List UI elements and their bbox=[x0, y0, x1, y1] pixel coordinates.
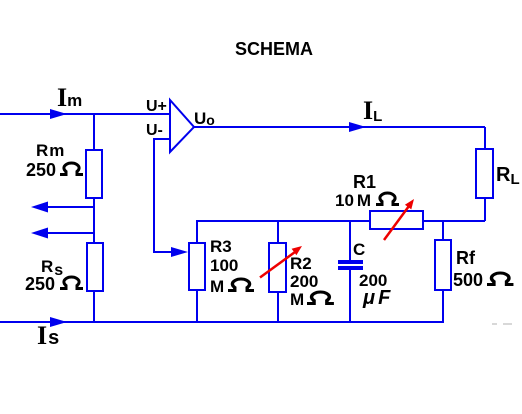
wire right vertical into RL bbox=[484, 127, 486, 149]
wire C bottom bbox=[349, 269, 351, 322]
resistor Rs bbox=[87, 243, 103, 291]
resistor R1 (variable, horizontal) bbox=[370, 211, 423, 229]
svg-text:Rm: Rm bbox=[36, 141, 65, 160]
svg-text:R2: R2 bbox=[290, 254, 312, 273]
resistor Rm bbox=[86, 150, 102, 198]
resistor Rf bbox=[435, 240, 451, 290]
svg-text:Rf: Rf bbox=[456, 248, 476, 268]
resistor R2 (variable) bbox=[269, 243, 286, 292]
svg-text:250: 250 bbox=[26, 160, 56, 180]
red trimmer arrow through R2 bbox=[260, 252, 295, 278]
svg-text:100: 100 bbox=[210, 256, 238, 275]
op-amp U1 bbox=[170, 100, 194, 152]
arrow Im on top wire bbox=[50, 109, 67, 119]
svg-text:500: 500 bbox=[453, 270, 483, 290]
wire Rf top stub bbox=[442, 221, 444, 240]
wire left arrow 2 bbox=[38, 232, 94, 234]
svg-text:Uo: Uo bbox=[194, 109, 215, 128]
capacitor C plates bbox=[338, 260, 363, 264]
faint artifact dots bottom right bbox=[492, 323, 497, 325]
wire C top stub bbox=[349, 221, 351, 261]
arrow Is on bottom wire bbox=[50, 317, 67, 327]
svg-text:C: C bbox=[353, 240, 365, 259]
svg-text:200: 200 bbox=[290, 272, 318, 291]
node A junction vertical wire through Rm and Rs bbox=[93, 114, 95, 322]
wire top-left input to op-amp bbox=[0, 113, 170, 115]
wire middle node bus bbox=[197, 221, 485, 243]
wire U- feedback: from op-amp inverting input down and right to R3 bbox=[154, 139, 178, 252]
svg-text:R3: R3 bbox=[210, 237, 232, 256]
wire R2 top stub bbox=[277, 221, 279, 243]
resistor R3 bbox=[189, 243, 205, 290]
svg-text:SCHEMA: SCHEMA bbox=[235, 39, 313, 59]
wire RL bottom to node bus bbox=[484, 198, 486, 221]
resistor RL bbox=[476, 149, 493, 198]
svg-text:M: M bbox=[290, 290, 304, 309]
svg-text:U+: U+ bbox=[146, 98, 167, 115]
wire bottom bus bbox=[0, 321, 444, 323]
svg-text:U-: U- bbox=[146, 122, 163, 139]
wire left arrow 1 bbox=[38, 206, 94, 208]
svg-text:R1: R1 bbox=[353, 172, 376, 192]
arrow IL on output wire bbox=[349, 122, 366, 132]
wire R3 bottom bbox=[196, 290, 198, 322]
red trimmer arrow through R1 bbox=[384, 206, 409, 240]
wire R2 bottom bbox=[277, 292, 279, 322]
wire Rf bottom bbox=[442, 290, 444, 322]
svg-text:M: M bbox=[210, 277, 224, 296]
wire op-amp output to right bbox=[194, 126, 485, 128]
svg-text:10M: 10M bbox=[335, 191, 371, 210]
svg-text:250: 250 bbox=[25, 274, 55, 294]
